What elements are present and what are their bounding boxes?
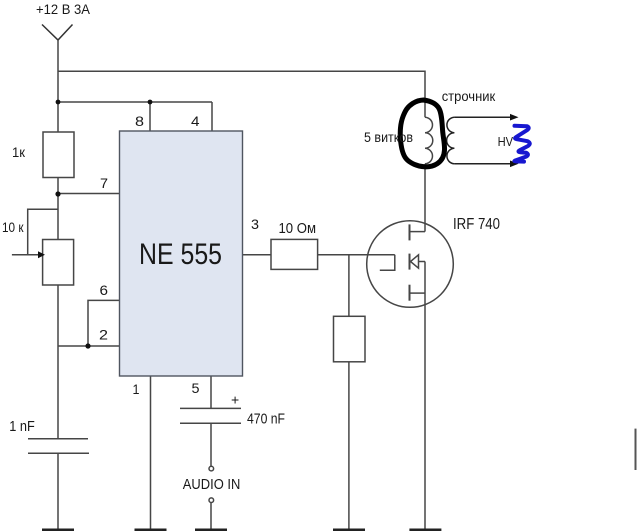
svg-text:1: 1 [133, 381, 140, 397]
svg-text:4: 4 [191, 113, 200, 129]
svg-text:10 Ом: 10 Ом [279, 220, 317, 237]
svg-text:10 к: 10 к [2, 219, 24, 235]
svg-text:+: + [231, 392, 239, 408]
svg-text:IRF 740: IRF 740 [453, 216, 500, 233]
svg-text:5: 5 [192, 380, 200, 396]
svg-text:8: 8 [135, 113, 144, 129]
svg-text:1к: 1к [12, 144, 26, 160]
svg-text:7: 7 [100, 175, 108, 191]
svg-text:3: 3 [251, 216, 259, 232]
svg-text:HV: HV [498, 134, 514, 149]
svg-text:AUDIO IN: AUDIO IN [183, 477, 241, 493]
svg-text:NE 555: NE 555 [139, 238, 222, 271]
svg-text:6: 6 [100, 282, 109, 298]
svg-text:1 nF: 1 nF [9, 418, 35, 435]
svg-text:5 витков: 5 витков [364, 129, 413, 145]
svg-text:2: 2 [99, 327, 108, 343]
svg-text:470 nF: 470 nF [247, 410, 285, 427]
svg-text:строчник: строчник [442, 89, 496, 104]
svg-text:+12 В 3А: +12 В 3А [36, 2, 90, 17]
